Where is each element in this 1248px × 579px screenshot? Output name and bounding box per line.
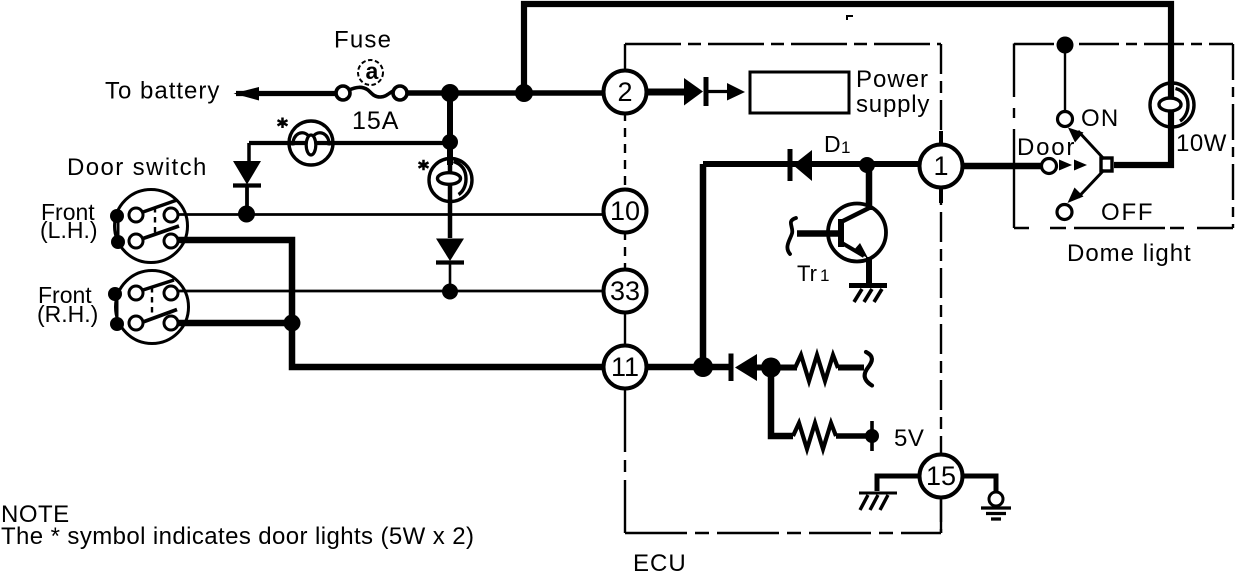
asterisk lamp1 <box>278 118 288 129</box>
junction D1 vertical <box>693 357 713 377</box>
dome: OFF contact <box>1057 205 1072 220</box>
circle a <box>358 60 383 85</box>
wire: vertical to door lamp 2 <box>447 93 453 165</box>
diode under lamp1 <box>233 161 261 185</box>
svg-text:1: 1 <box>820 266 829 285</box>
dome: ON contact <box>1058 112 1073 127</box>
terminal 2 <box>604 71 647 114</box>
dome: lever to OFF <box>1078 170 1104 198</box>
svg-text:10: 10 <box>610 196 640 226</box>
junction top-feed <box>515 84 533 102</box>
wire: terminal 15 right to earth <box>962 476 996 492</box>
wire: terminal 11 row inside ECU <box>646 364 731 371</box>
terminal 10 <box>604 190 647 233</box>
scan artifact mark <box>847 16 853 20</box>
terminal 15 <box>920 455 963 498</box>
svg-text:(L.H.): (L.H.) <box>40 217 98 243</box>
svg-text:15: 15 <box>926 461 956 491</box>
wire: thick LH bottom to terminal 11 <box>178 240 604 367</box>
svg-text:Tr: Tr <box>797 261 817 286</box>
terminal 1 <box>920 145 963 188</box>
earth ground <box>981 492 1011 519</box>
wire: D1 row and vertical to line 11 <box>703 161 920 167</box>
ECU edge stub below terminal 15 <box>940 496 942 533</box>
dome: lever to ON <box>1078 131 1104 159</box>
svg-text:15A: 15A <box>352 107 399 135</box>
resistor R2 <box>793 423 836 449</box>
svg-text:ON: ON <box>1081 105 1119 132</box>
wire: battery feed line <box>236 91 336 96</box>
svg-text:Door: Door <box>1017 134 1076 161</box>
dome: wire to ON contact <box>1064 45 1066 112</box>
ground under Tr1 <box>849 286 887 303</box>
door switch RH <box>108 271 189 344</box>
dome: double arrow <box>1059 160 1072 171</box>
Dome light box (dash-dot border) <box>1014 43 1233 45</box>
svg-text:Power: Power <box>856 66 929 93</box>
terminal 11 <box>604 346 647 389</box>
ground left of 15 <box>859 493 897 510</box>
resistor R1 <box>795 355 838 381</box>
svg-text:The * symbol indicates door li: The * symbol indicates door lights (5W x… <box>1 523 474 550</box>
svg-text:10W: 10W <box>1176 130 1227 157</box>
junction RH <box>284 315 301 332</box>
wire: line to terminal 33 <box>178 290 604 293</box>
wire: terminal 2 to power supply <box>646 89 686 96</box>
dome lamp 10W <box>1150 83 1194 127</box>
svg-text:supply: supply <box>856 91 930 118</box>
wire: lamp1 horizontal <box>249 141 450 145</box>
continuation hook <box>865 352 872 386</box>
junction on line 10 <box>238 206 255 223</box>
dome: Door contact <box>1042 159 1057 174</box>
svg-text:1: 1 <box>841 138 850 157</box>
junction fuse-right <box>441 84 459 102</box>
door lamp R (5W) <box>429 159 472 202</box>
arrow to battery <box>234 87 260 101</box>
dome: switch pivot <box>1101 158 1112 171</box>
junction at transistor collector <box>859 157 875 173</box>
ECU edge stubs at terminal 1 <box>939 131 943 203</box>
diode to power supply <box>684 78 703 106</box>
svg-text:D: D <box>824 131 841 157</box>
door switch LH <box>110 190 188 263</box>
collector wire <box>866 165 873 210</box>
junction lamp1 line <box>442 134 458 150</box>
wire: top feed from battery junction to dome lamp <box>524 4 1171 165</box>
power supply box <box>750 72 849 113</box>
diode D1 <box>788 149 793 181</box>
svg-text:OFF: OFF <box>1101 199 1154 226</box>
svg-text:a: a <box>366 58 379 84</box>
diode on line 11 <box>729 354 734 382</box>
terminal 33 <box>604 270 647 313</box>
ECU box (dash-dot border) <box>625 43 941 45</box>
svg-text:1: 1 <box>933 151 948 181</box>
wire: thick RH bottom <box>178 320 292 327</box>
door lamp L (5W) <box>289 121 333 165</box>
junction on line 33 <box>442 284 458 300</box>
svg-text:ECU: ECU <box>633 550 687 574</box>
svg-text:33: 33 <box>610 276 640 306</box>
junction 5V branch <box>761 358 781 378</box>
asterisk lamp2 <box>419 160 429 170</box>
svg-text:(R.H.): (R.H.) <box>37 301 98 327</box>
wire: terminal 15 left to ground <box>877 476 921 491</box>
fuse symbol <box>336 86 350 100</box>
dome: junction on box top <box>1057 37 1074 54</box>
svg-text:Door switch: Door switch <box>67 154 208 181</box>
5V pin <box>870 421 874 451</box>
wire: line to terminal 10 <box>178 213 604 216</box>
svg-text:Dome light: Dome light <box>1067 240 1192 267</box>
svg-text:2: 2 <box>617 77 632 107</box>
svg-text:5V: 5V <box>894 425 924 452</box>
wire: 5V branch <box>771 368 793 436</box>
wire: terminal 1 to dome switch <box>962 163 1041 170</box>
transistor Tr1 <box>787 204 886 287</box>
diode under lamp2 <box>436 239 464 262</box>
svg-text:Fuse: Fuse <box>334 27 392 54</box>
svg-text:To battery: To battery <box>105 78 220 105</box>
svg-text:11: 11 <box>611 352 639 382</box>
